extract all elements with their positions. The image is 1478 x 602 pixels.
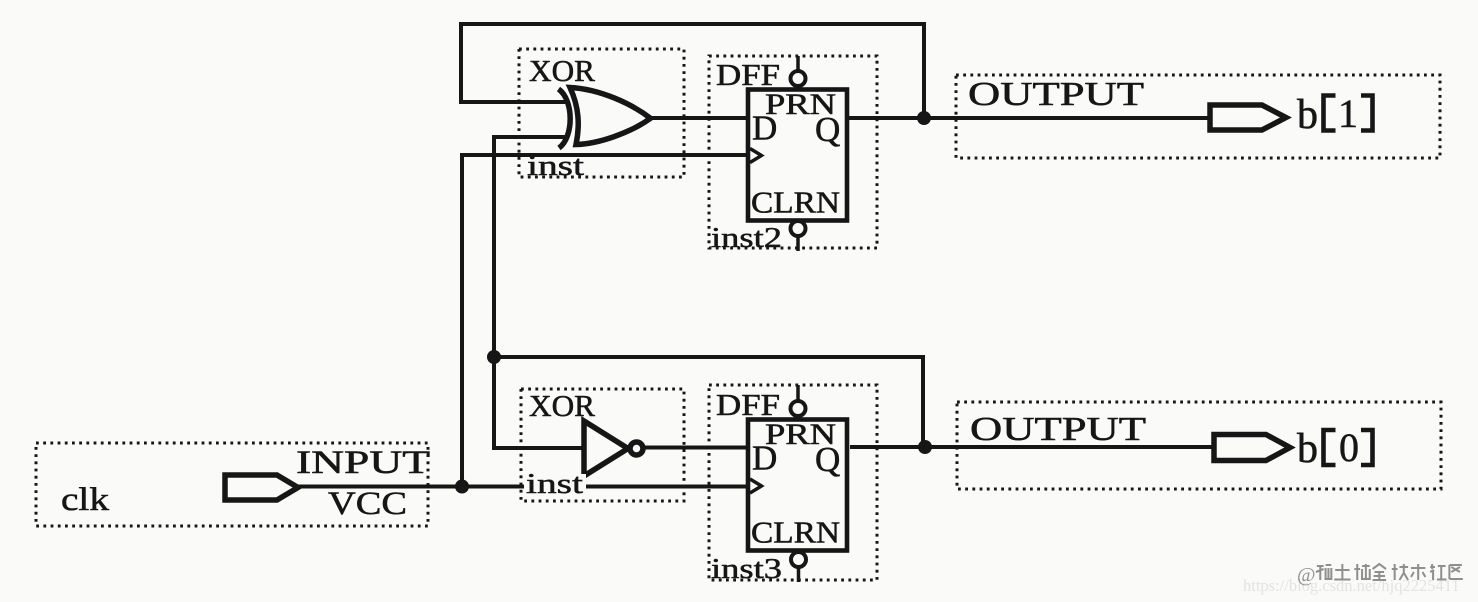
DFF inst3 CLRN pin bubble [791,552,806,567]
OUTPUT b[0] dotted block boundary [957,402,1441,489]
svg-text:inst: inst [527,151,584,182]
wire: DFF inst3 Q output to output pin b[0] [850,445,1216,449]
XOR U1 extra input arc [559,89,571,148]
wire: b[0] feedback vertical to XOR U1 input 2 and inverter U2 input [494,137,584,448]
svg-text:VCC: VCC [328,486,407,522]
svg-text:https://blog.csdn.net/hjq22254: https://blog.csdn.net/hjq2225411 [1243,576,1460,595]
DFF inst2 dotted block boundary [709,56,877,248]
node B junction on clk net [455,480,469,494]
wire: clk net vertical up to DFF inst2 clock [462,155,748,487]
node A junction on b[1] net [917,111,931,125]
bracket [ of b[0] [1324,430,1336,465]
svg-text:b: b [1297,426,1318,472]
DFF inst2 CLRN pin stub [796,236,800,251]
svg-text:inst: inst [526,469,583,500]
svg-text:OUTPUT: OUTPUT [968,76,1144,113]
input pin symbol clk [225,475,298,500]
svg-text:1: 1 [1338,91,1358,136]
DFF inst3 dotted block boundary [709,385,877,580]
XOR(NOT) U2 dotted block boundary [521,389,684,501]
wire: DFF inst2 Q output to output pin b[1] [849,116,1212,120]
label inst (U2 instance name, on paper background) [524,474,586,496]
watermark CJK glyphs (drawn strokes): 稀土掘金技术社区 [1316,564,1463,580]
wire: middle feedback from node C to node D on Q of inst3 [494,357,923,446]
svg-text:INPUT: INPUT [296,445,430,481]
op XOR gate U1 body [570,88,651,145]
bracket ] of b[0] [1361,430,1373,465]
wire: inverter U2 output to DFF inst3 D pin [643,446,748,450]
bracket ] of b[1] [1361,96,1373,131]
OUTPUT b[1] dotted block boundary [956,75,1440,158]
svg-text:inst2: inst2 [711,223,782,254]
svg-text:XOR: XOR [529,388,595,423]
svg-text:CLRN: CLRN [751,185,840,220]
output pin symbol b[1] [1210,105,1286,130]
svg-text:DFF: DFF [716,57,780,92]
output pin symbol b[0] [1214,435,1290,461]
node C junction on b[0] feedback net [487,350,501,364]
INPUT clk dotted block boundary [36,443,428,526]
svg-text:DFF: DFF [716,387,780,422]
svg-text:Q: Q [815,440,840,479]
wire: XOR U1 output to DFF inst2 D pin [650,116,748,120]
svg-text:D: D [752,109,777,148]
svg-text:Q: Q [815,110,840,149]
inverter U2 output bubble [630,442,643,455]
svg-text:clk: clk [61,482,110,518]
XOR U1 dotted block boundary [519,49,684,177]
wire: clk net horizontal to DFF inst3 clock [298,485,748,489]
DFF inst3 CLRN pin stub [797,567,801,582]
DFF inst2 PRN pin stub [796,56,800,71]
DFF inst3 PRN pin bubble [791,401,806,416]
svg-text:D: D [752,439,777,478]
DFF inst3 PRN pin stub [796,385,800,401]
inverter gate U2 triangle [584,421,628,476]
DFF inst2 clock input triangle [750,149,762,163]
wire: top feedback from node A down-left to XOR U1 input 1 [461,24,924,116]
svg-text:XOR: XOR [529,53,595,88]
DFF inst2 CLRN pin bubble [791,221,806,236]
svg-text:@: @ [1297,564,1315,586]
DFF inst3 clock input triangle [750,479,762,493]
svg-text:CLRN: CLRN [751,515,840,550]
bracket [ of b[1] [1324,96,1336,131]
node D junction on Q of inst3 [918,440,932,454]
DFF inst3 body rectangle [748,420,847,551]
svg-text:b: b [1297,92,1318,138]
svg-text:inst3: inst3 [711,554,782,585]
DFF inst2 PRN pin bubble [791,71,806,86]
svg-text:OUTPUT: OUTPUT [970,411,1146,448]
svg-text:0: 0 [1339,425,1359,470]
DFF inst2 body rectangle [748,90,847,221]
